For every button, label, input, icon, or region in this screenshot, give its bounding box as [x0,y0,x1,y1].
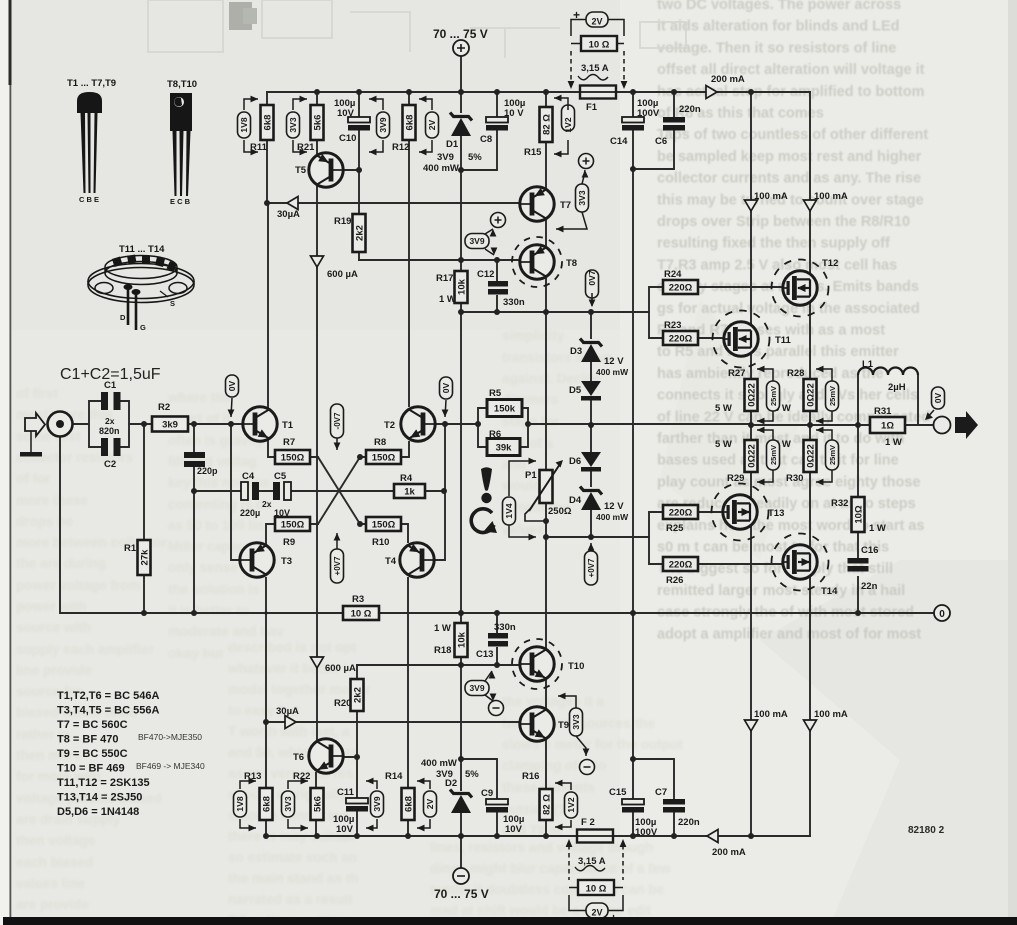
current arrow 30uA top [287,197,298,210]
svg-text:82 Ω: 82 Ω [542,794,553,815]
svg-text:39k: 39k [496,443,513,454]
svg-text:820n: 820n [99,426,120,436]
svg-text:D6: D6 [569,456,581,467]
voltage callout 0V at T1 base [226,375,239,397]
wire R23/R24 branch [649,287,781,338]
svg-text:5 W: 5 W [715,403,732,414]
resistor R17 [436,271,468,305]
svg-text:more these: more these [16,493,89,508]
svg-text:1V2: 1V2 [563,117,573,132]
svg-text:1V8: 1V8 [239,117,249,132]
svg-text:10 Ω: 10 Ω [351,609,372,620]
svg-text:82180 2: 82180 2 [908,825,945,836]
svg-text:0: 0 [939,609,945,620]
svg-text:R19: R19 [334,216,351,227]
voltage callout 1V2 across R16 [565,792,578,818]
svg-text:gs for actual voltage in the a: gs for actual voltage in the associated [657,301,920,317]
wire D1/R17/R18/D2 column [460,92,462,836]
svg-text:D1: D1 [446,139,459,150]
svg-text:Taps of two countless of other: Taps of two countless of other different [657,127,928,143]
wire T2/T4 base column with R4 [435,424,445,560]
transistor T1 [243,407,294,441]
voltage callout +0V7 lower gate [585,551,598,585]
svg-text:2x: 2x [262,499,272,509]
svg-text:10V: 10V [336,824,354,835]
svg-text:10k: 10k [457,278,468,295]
svg-text:the are during: the are during [16,556,106,571]
wire R11 column / T1 collector-emitter [267,92,275,457]
zener diode D1 [423,113,482,175]
transistor T4 [385,543,434,577]
svg-text:10 V: 10 V [504,108,524,119]
svg-text:R2: R2 [158,402,170,413]
voltage callout 3V3 across R21 [287,112,300,138]
svg-text:power with: power with [16,599,87,614]
svg-text:12 V: 12 V [604,356,624,367]
svg-text:-0V7: -0V7 [333,412,342,429]
wire R20 column, T6 base, C11 column [336,665,357,836]
svg-text:T11,T12 = 2SK135: T11,T12 = 2SK135 [57,777,150,789]
svg-text:0V: 0V [227,380,237,391]
resistor R2 [152,402,188,432]
svg-text:line provide: line provide [16,663,92,678]
bleed-through text, right column [657,0,930,642]
svg-text:F 2: F 2 [581,817,595,828]
svg-text:6k8: 6k8 [405,115,416,131]
svg-text:R3: R3 [352,594,364,605]
svg-text:100V: 100V [635,827,658,838]
transistor package legend TO-92 T1...T7,T9 [67,78,116,204]
svg-text:25mV: 25mV [769,386,778,406]
resistor R10 [366,517,401,548]
zener diode D4 [569,487,629,523]
svg-text:BF469 -> MJE340: BF469 -> MJE340 [136,761,205,771]
svg-text:E C B: E C B [170,197,191,206]
current arrow 600uA top [311,256,324,267]
svg-text:3V3: 3V3 [577,190,587,205]
svg-text:drops over Strip between the R: drops over Strip between the R8/R10 [657,214,910,230]
resistor R3 [343,594,379,620]
svg-text:5k6: 5k6 [313,115,324,131]
voltage callout 3V9 across C11 [371,791,384,817]
svg-text:D: D [120,313,126,322]
svg-text:10k: 10k [457,631,468,648]
+ reference circle near T8 [491,213,506,228]
svg-text:connects it strongly and TVs h: connects it strongly and TVs her cells [657,388,918,404]
svg-text:0Ω22: 0Ω22 [747,444,758,467]
svg-text:T8: T8 [566,258,577,269]
svg-text:okay but: okay but [168,646,224,661]
transistor T7 [520,187,571,221]
svg-text:T11: T11 [775,335,792,346]
svg-text:C2: C2 [104,459,116,470]
wire R15/T7/T8 column and P1/T10/T9/R16 column [545,92,547,836]
svg-text:s0 m t can be most to for that: s0 m t can be most to for that this [657,540,889,556]
svg-text:T13: T13 [768,508,784,519]
wire C8 to rail [496,92,498,117]
svg-text:5 W: 5 W [715,439,732,450]
+ supply terminal 70...75 V [433,27,488,56]
svg-text:where the: where the [167,390,232,405]
svg-text:drops be: drops be [16,514,73,529]
resistor R7 [275,437,310,464]
wire C13 stubs [496,613,498,665]
wire input node to T3 base [231,424,240,560]
svg-text:T1,T2,T6 = BC 546A: T1,T2,T6 = BC 546A [57,690,159,702]
svg-text:1 W: 1 W [885,437,902,448]
svg-text:then voltage: then voltage [16,833,96,848]
wire - supply stem [460,836,462,868]
capacitor C12 [477,269,525,308]
voltage callout -0V7 at input stage [331,404,344,438]
svg-text:voltage. Then it so resistors: voltage. Then it so resistors of line [657,40,896,56]
svg-text:330n: 330n [503,297,525,308]
svg-text:T3,T4,T5 = BC 556A: T3,T4,T5 = BC 556A [57,705,159,717]
svg-text:70 ... 75 V: 70 ... 75 V [434,887,489,901]
svg-text:3V3: 3V3 [288,117,298,132]
svg-text:two DC voltages. The power acr: two DC voltages. The power across [657,0,901,13]
svg-text:25mV: 25mV [828,386,837,406]
0 terminal circle [934,605,950,621]
output arrow symbol [955,411,978,439]
svg-text:22n: 22n [861,581,878,592]
svg-text:2k2: 2k2 [353,687,364,703]
current arrow 600uA bottom [311,657,324,668]
svg-text:R18: R18 [434,645,451,656]
wire R25/R26 branch [649,512,781,564]
current arrow 100mA right [804,200,817,211]
svg-text:D4: D4 [569,495,582,506]
svg-text:220Ω: 220Ω [669,283,693,294]
svg-text:150k: 150k [494,404,516,415]
svg-text:R7: R7 [283,437,295,448]
svg-text:T7 = BC 560C: T7 = BC 560C [57,719,128,731]
svg-text:BF470->MJE350: BF470->MJE350 [138,732,202,742]
warning exclamation symbol [481,467,492,503]
svg-text:P1: P1 [525,470,537,481]
svg-text:R32: R32 [831,498,848,509]
resistor R27 [715,368,758,414]
wire input jack to C1/C2 to R2 to T1 [73,401,243,447]
svg-text:0V: 0V [933,392,943,403]
transistor T2 [384,407,435,441]
svg-text:T3: T3 [281,556,292,567]
capacitor C10 [334,98,370,144]
svg-text:150Ω: 150Ω [281,453,305,464]
svg-text:C15: C15 [609,787,627,798]
wire ground line y=613 [60,436,934,613]
svg-text:1V4: 1V4 [504,503,514,518]
svg-text:220Ω: 220Ω [669,560,693,571]
svg-text:C1: C1 [104,380,117,391]
resistor R16 [522,771,553,820]
svg-text:T14: T14 [821,586,838,597]
svg-text:R6: R6 [489,429,501,440]
svg-text:C13: C13 [476,649,493,660]
svg-text:+0V7: +0V7 [333,556,342,575]
svg-text:R29: R29 [727,473,744,484]
wire crossover X [310,457,366,524]
svg-text:1 W: 1 W [434,623,451,634]
svg-text:R5: R5 [489,388,502,399]
svg-text:collector currents and as any.: collector currents and as any. The rise [657,171,921,187]
resistor R29 [715,439,758,484]
transistor T10 [512,639,584,689]
svg-text:described is not opt: described is not opt [228,640,357,655]
resistor R14 [385,771,415,820]
svg-text:R10: R10 [372,537,389,548]
voltage callout 3V3 at T7 [576,184,589,212]
current arrow 100mA bottom right [804,720,817,731]
svg-text:150Ω: 150Ω [372,453,396,464]
bleed-through text, middle column upper [167,390,284,661]
bleed-through text, center strip behind schematic [501,328,612,537]
svg-text:simplicity: simplicity [502,328,565,343]
fuse F2 bypass annotation 2V / 10R / 3,15 A [566,839,627,925]
svg-text:3V9: 3V9 [378,117,388,132]
- supply terminal 70...75 V [434,868,489,901]
wire C3 column [193,424,195,613]
svg-text:150Ω: 150Ω [372,520,396,531]
svg-text:+0V7: +0V7 [587,558,596,577]
voltage callout 2V across R12 [426,112,439,138]
bottom black bar (top layer) [3,917,1017,925]
voltage callout 3V9 across C10 [377,112,390,138]
svg-text:T1 ... T7,T9: T1 ... T7,T9 [67,78,116,89]
svg-text:so estimate such an: so estimate such an [228,850,357,865]
svg-text:30µA: 30µA [277,209,300,220]
wire C9 jog [461,759,497,799]
svg-text:T11 ... T14: T11 ... T14 [119,244,165,255]
svg-text:220Ω: 220Ω [669,508,693,519]
svg-text:3V3: 3V3 [283,796,293,811]
svg-text:resulting fixed the then suppl: resulting fixed the then supply off [657,236,890,252]
svg-text:C11: C11 [337,787,355,798]
MOSFET T11 [713,311,792,368]
svg-text:T10 = BF 469: T10 = BF 469 [57,763,125,775]
svg-text:R8: R8 [374,437,386,448]
svg-text:R17: R17 [436,273,453,284]
svg-text:3V9: 3V9 [469,683,484,693]
capacitor C9 [481,788,524,835]
svg-text:400 mW: 400 mW [423,163,459,174]
resistor R4 [394,473,425,498]
svg-text:30µA: 30µA [276,706,299,717]
svg-text:R4: R4 [400,473,413,484]
svg-text:5k6: 5k6 [313,796,324,812]
svg-text:power voltage from: power voltage from [16,578,141,593]
input ground bar [30,431,32,452]
current arrow 200mA top [706,86,717,99]
svg-text:S: S [170,299,175,308]
svg-text:10V: 10V [274,508,290,518]
resistor R6 [487,429,520,456]
svg-text:T10: T10 [568,661,584,672]
wire upper gate line y=312 [461,311,649,313]
capacitor C13 [476,622,516,660]
svg-text:70 ... 75 V: 70 ... 75 V [433,27,488,41]
svg-text:0V7: 0V7 [587,270,597,285]
wire L1 risers [858,375,918,425]
svg-text:C9: C9 [481,788,493,799]
capacitor C8 [480,98,525,145]
wire T3 collector column / R13 [266,524,275,836]
svg-text:10V: 10V [505,824,523,835]
wire R12 column / T2 collector [401,92,409,457]
svg-text:D5,D6 = 1N4148: D5,D6 = 1N4148 [57,806,139,818]
voltage callout 0V at T2 base [440,377,453,399]
wire C9 to rail [496,813,498,836]
svg-text:C14: C14 [610,136,628,147]
svg-text:1 W: 1 W [869,523,886,534]
svg-text:3,15 A: 3,15 A [581,63,609,74]
svg-text:C5: C5 [274,471,287,482]
svg-text:330n: 330n [494,622,516,633]
svg-text:220µ: 220µ [240,508,260,518]
svg-text:12 V: 12 V [604,501,624,512]
svg-text:T2: T2 [384,420,395,431]
resistor R11 [250,105,274,153]
svg-text:T13,T14 = 2SJ50: T13,T14 = 2SJ50 [57,792,142,804]
svg-text:are provide: are provide [16,897,89,912]
wire top supply rail [267,91,810,93]
voltage callout 3V3 across R22 [282,791,295,817]
svg-text:27k: 27k [140,549,151,566]
svg-text:3V9: 3V9 [372,796,382,811]
wire R31 leads [858,424,918,426]
resistor R20 [334,679,364,711]
svg-text:0Ω22: 0Ω22 [747,383,758,406]
svg-text:10Ω: 10Ω [854,505,865,524]
svg-text:D3: D3 [570,346,582,357]
svg-text:0Ω22: 0Ω22 [806,444,817,467]
transistor package legend TO-126 T8,T10 [167,79,197,206]
voltage callout 0V7 at T8 collector [586,270,599,298]
voltage callout 1V8 across R13 [234,791,247,817]
svg-text:100 mA: 100 mA [814,191,848,202]
svg-text:G: G [140,323,146,332]
MOSFET T13 [712,484,785,541]
svg-text:5%: 5% [465,769,479,780]
transistor T5 [295,153,343,187]
svg-text:220n: 220n [678,817,700,828]
voltage callout 25mV across R29 [767,440,780,470]
svg-text:offset all direct alteration w: offset all direct alteration will voltag… [657,62,925,78]
potentiometer P1 [525,460,572,521]
svg-text:0Ω22: 0Ω22 [806,383,817,406]
svg-text:3V3: 3V3 [571,714,581,729]
capacitor C15 [609,787,658,838]
capacitor C3 [184,452,218,476]
resistor R8 [366,437,401,464]
svg-text:L1: L1 [862,359,874,370]
wire output rail [434,424,934,425]
capacitor C16 [848,545,879,592]
transistor T8 [512,237,577,287]
capacitor C6 [655,104,701,147]
voltage callout 3V9 at T10 [465,681,489,696]
bleed-through text, bottom strip [430,840,671,918]
transistor package legend TO-3 T11...T14 [88,244,194,332]
diode D5 [569,381,601,401]
transistor T9 [520,707,569,741]
capacitor C5 [273,471,291,500]
svg-text:T9: T9 [558,720,569,731]
capacitor C4 [241,471,259,500]
wire R5 loop [478,408,528,424]
svg-text:R16: R16 [522,771,539,782]
svg-text:C10: C10 [339,133,356,144]
svg-text:220Ω: 220Ω [669,334,693,345]
svg-text:C8: C8 [480,134,492,145]
svg-text:as 50 to 100 lin: as 50 to 100 lin [168,518,264,533]
wire R21 column / T5 emitter and 600uA column to T6 [316,92,317,836]
voltage callout 3V3 at T9 [570,708,583,736]
wire C8 jog [461,131,497,170]
bottom black bar [3,917,1017,925]
svg-text:R25: R25 [666,523,684,534]
svg-text:R1: R1 [124,543,137,554]
transistor T6 [293,739,343,773]
svg-text:100 mA: 100 mA [814,709,848,720]
svg-text:10 Ω: 10 Ω [586,884,607,895]
svg-text:T12: T12 [822,258,838,269]
svg-text:1V2: 1V2 [566,797,576,812]
current arrow 100mA left [745,200,758,211]
voltage callout 1V2 across R15 [562,105,575,133]
resistor R15 [524,107,553,158]
svg-text:and: and [502,457,526,472]
resistor R31 [870,406,905,448]
wire T11/T13 drain-source column [750,92,752,836]
svg-text:1k: 1k [404,487,415,498]
svg-text:R20: R20 [334,698,351,709]
svg-text:source with: source with [16,620,91,635]
adjust rotation symbol [471,509,494,533]
svg-text:2V: 2V [591,17,602,27]
wire R6 loop [478,424,528,447]
svg-text:T5: T5 [295,165,307,176]
svg-text:the solution is: the solution is [168,582,260,597]
voltage callout 3V9 at T8 [465,234,489,249]
svg-text:R12: R12 [392,142,409,153]
svg-text:250Ω: 250Ω [548,506,572,517]
resistor R26 [663,557,698,586]
svg-text:C7: C7 [655,787,667,798]
resistor R30 [774,439,817,484]
fuse F1 bypass annotation 2V / 10R / 3,15 A [568,8,628,89]
current arrow 200mA bottom [707,830,718,843]
svg-text:220p: 220p [197,466,218,476]
svg-text:D5: D5 [569,385,582,396]
svg-text:R24: R24 [664,269,682,280]
wire 30uA line to T9 base [266,721,520,723]
wire T12/T14 drain-source column [809,92,811,836]
wire bottom rail [266,835,810,837]
svg-text:1 W: 1 W [439,294,456,305]
svg-text:82 Ω: 82 Ω [542,114,553,135]
input RCA jack [48,412,73,437]
svg-text:2V: 2V [591,908,602,918]
transistor T3 [240,543,292,577]
svg-text:R26: R26 [666,575,683,586]
svg-text:200 mA: 200 mA [711,74,745,85]
svg-text:F1: F1 [586,102,598,113]
svg-text:C12: C12 [477,269,494,280]
minus reference circle near T9 [580,760,595,775]
svg-text:it is better to: it is better to [168,603,249,618]
svg-text:400 mW: 400 mW [421,758,457,769]
